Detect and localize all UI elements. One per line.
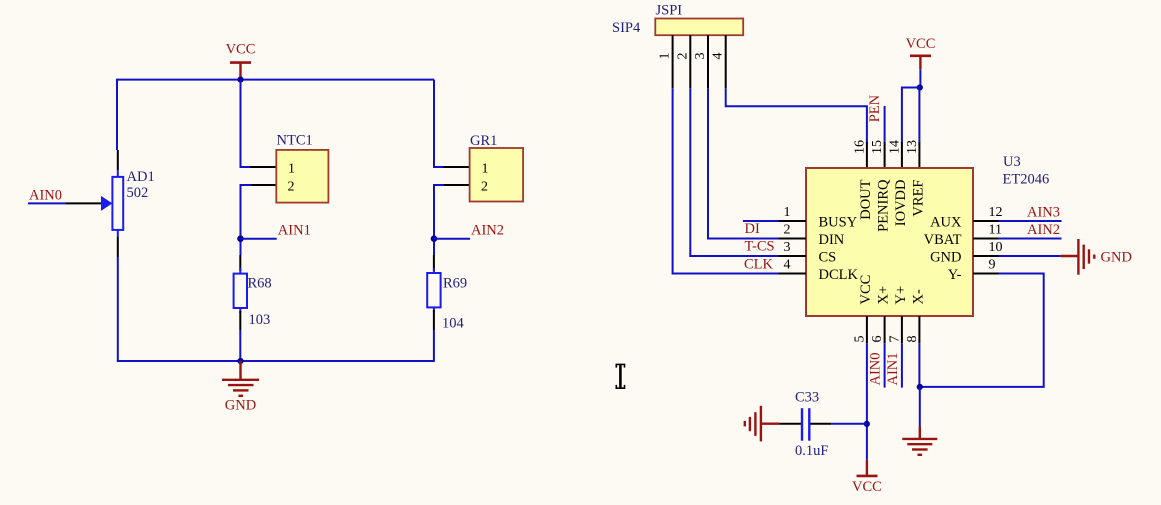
svg-text:11: 11 bbox=[989, 223, 1002, 238]
svg-text:CS: CS bbox=[819, 250, 837, 266]
ground GND (left) bbox=[222, 361, 259, 414]
pin name IOVDD bbox=[893, 180, 909, 227]
wire X- pin8 down bbox=[918, 343, 920, 387]
pin name CS bbox=[819, 250, 837, 266]
wire AIN0 to AD1 wiper bbox=[28, 202, 102, 204]
junction AIN2 bbox=[431, 235, 438, 242]
value 104 bbox=[442, 316, 465, 332]
svg-text:VCC: VCC bbox=[852, 479, 882, 495]
svg-text:AIN2: AIN2 bbox=[471, 223, 504, 239]
net label AIN2 bbox=[471, 223, 504, 239]
pin R68 top bbox=[239, 255, 241, 271]
svg-text:DCLK: DCLK bbox=[819, 267, 859, 283]
wire PEN stub bbox=[884, 106, 886, 143]
svg-text:4: 4 bbox=[711, 53, 726, 60]
svg-text:GND: GND bbox=[1101, 250, 1132, 266]
wire X+ stub pin6 bbox=[884, 343, 886, 387]
svg-text:8: 8 bbox=[905, 336, 920, 343]
pin U3.4 bbox=[779, 258, 806, 274]
pin name VCC bbox=[858, 275, 874, 305]
svg-text:IOVDD: IOVDD bbox=[893, 180, 909, 227]
pin name VBAT bbox=[924, 232, 962, 248]
svg-text:C33: C33 bbox=[795, 390, 819, 406]
wire GR1 pin2 down to AIN2 node bbox=[434, 185, 444, 255]
svg-text:9: 9 bbox=[989, 258, 996, 273]
potentiometer AD1 wiper arrow bbox=[101, 196, 112, 211]
wire AIN2 stub bbox=[434, 238, 470, 240]
pin U3.14 bbox=[887, 140, 902, 168]
wire VCC pin5 down bbox=[866, 343, 868, 460]
pin NTC1.1 bbox=[250, 166, 276, 168]
connector NTC1 bbox=[276, 150, 328, 203]
svg-text:2: 2 bbox=[288, 180, 295, 195]
value 103 bbox=[249, 312, 271, 328]
wire JSPI1 to U3 DCLK bbox=[673, 88, 780, 273]
net label AIN0 (rotated) bbox=[868, 352, 884, 385]
svg-text:PEN: PEN bbox=[867, 94, 883, 122]
svg-text:DOUT: DOUT bbox=[858, 179, 874, 219]
svg-text:AIN0: AIN0 bbox=[29, 188, 62, 204]
pin JSPI.2 bbox=[675, 35, 690, 88]
pin U3.7 bbox=[887, 316, 902, 343]
wire AIN2 pin11 bbox=[999, 238, 1062, 240]
svg-text:Y-: Y- bbox=[948, 267, 962, 283]
svg-text:AUX: AUX bbox=[930, 215, 962, 231]
connector JSPI bbox=[655, 19, 743, 36]
net label PEN bbox=[867, 94, 883, 122]
svg-text:BUSY: BUSY bbox=[819, 215, 858, 231]
svg-text:DIN: DIN bbox=[819, 232, 845, 248]
pin U3.3 bbox=[779, 240, 806, 256]
svg-text:AIN3: AIN3 bbox=[1027, 205, 1060, 221]
svg-text:7: 7 bbox=[887, 336, 902, 343]
pin AD1 top (black) bbox=[117, 150, 119, 170]
pin name X- bbox=[910, 289, 926, 304]
svg-text:AIN0: AIN0 bbox=[868, 352, 884, 385]
svg-text:2: 2 bbox=[784, 223, 791, 238]
wire top rail bbox=[116, 79, 434, 81]
net label AIN3 bbox=[1027, 205, 1060, 221]
power VCC (top left) bbox=[226, 42, 256, 80]
label AD1 bbox=[127, 169, 155, 185]
pin U3.9 bbox=[973, 258, 999, 274]
connector GR1 bbox=[470, 148, 523, 202]
svg-text:X+: X+ bbox=[876, 286, 892, 305]
svg-text:VCC: VCC bbox=[906, 36, 936, 52]
svg-text:JSPI: JSPI bbox=[656, 3, 683, 19]
power VCC (bottom) bbox=[852, 460, 882, 495]
ground GND (right, rotated) bbox=[1061, 239, 1132, 275]
svg-text:CLK: CLK bbox=[744, 256, 774, 272]
wire VCC rail to GR1 pin1 bbox=[434, 80, 444, 167]
junction AIN1 bbox=[237, 235, 244, 242]
svg-text:DI: DI bbox=[745, 221, 760, 237]
svg-text:GR1: GR1 bbox=[470, 133, 497, 149]
svg-text:ET2046: ET2046 bbox=[1003, 172, 1050, 188]
junction VCC node bbox=[237, 77, 243, 83]
svg-text:PENIRQ: PENIRQ bbox=[876, 179, 892, 232]
svg-text:R68: R68 bbox=[248, 276, 272, 292]
pin U3.2 bbox=[779, 223, 806, 239]
svg-text:1: 1 bbox=[658, 53, 673, 60]
svg-text:VREF: VREF bbox=[910, 180, 926, 217]
svg-text:2: 2 bbox=[481, 180, 488, 195]
svg-text:NTC1: NTC1 bbox=[277, 133, 313, 149]
net label CLK bbox=[744, 256, 774, 272]
label U3 bbox=[1003, 154, 1021, 170]
pin R68 bottom bbox=[239, 311, 241, 330]
wire GND pin10 bbox=[999, 255, 1061, 257]
pin U3.6 bbox=[870, 316, 885, 343]
pin U3.12 bbox=[973, 205, 1003, 221]
wire left rail bbox=[116, 80, 119, 361]
svg-text:502: 502 bbox=[127, 185, 149, 201]
svg-text:1: 1 bbox=[482, 162, 489, 177]
label R68 bbox=[248, 276, 272, 292]
value 0.1uF bbox=[795, 443, 828, 459]
pin name Y+ bbox=[893, 286, 909, 305]
wire AIN3 pin12 bbox=[999, 220, 1062, 222]
svg-text:13: 13 bbox=[905, 140, 920, 154]
pin name PENIRQ bbox=[876, 179, 892, 232]
text cursor I-beam bbox=[616, 364, 624, 388]
ic U3 body bbox=[806, 168, 973, 316]
junction VREF node bbox=[917, 84, 923, 90]
wire VCC to junction bbox=[919, 69, 921, 87]
svg-text:3: 3 bbox=[693, 53, 708, 60]
svg-text:10: 10 bbox=[989, 240, 1003, 255]
wire VCC rail to NTC1 pin1 bbox=[241, 80, 252, 167]
pin U3.1 bbox=[779, 205, 806, 221]
wire C33 to node bbox=[831, 423, 867, 425]
pin JSPI.1 bbox=[658, 35, 673, 88]
junction GND node bbox=[237, 358, 243, 364]
svg-text:103: 103 bbox=[249, 312, 271, 328]
wire Y- pin9 to X- node bbox=[920, 274, 1044, 387]
wire bottom rail bbox=[117, 360, 434, 362]
pin U3.11 bbox=[973, 223, 1002, 239]
svg-text:AIN1: AIN1 bbox=[278, 223, 311, 239]
net label AIN1 bbox=[278, 223, 311, 239]
wire JSPI3 to U3 DIN bbox=[708, 88, 780, 238]
svg-text:16: 16 bbox=[852, 140, 867, 154]
junction C33 node bbox=[864, 421, 870, 427]
label ET2046 bbox=[1003, 172, 1050, 188]
svg-text:AIN2: AIN2 bbox=[1027, 222, 1060, 238]
wire R69 to ground rail bbox=[433, 330, 435, 362]
svg-text:6: 6 bbox=[870, 336, 885, 343]
wire junction to IOVDD pin14 bbox=[902, 88, 920, 144]
pin name BUSY bbox=[819, 215, 858, 231]
svg-text:U3: U3 bbox=[1003, 154, 1021, 170]
pin JSPI.3 bbox=[693, 35, 708, 88]
wire JSPI2 to U3 CS bbox=[690, 88, 779, 256]
pin U3.8 bbox=[905, 316, 920, 343]
svg-text:104: 104 bbox=[442, 316, 465, 332]
pin JSPI.4 bbox=[711, 35, 726, 88]
svg-text:4: 4 bbox=[784, 258, 791, 273]
resistor R68 bbox=[234, 268, 247, 313]
net label AIN2 (right) bbox=[1027, 222, 1060, 238]
pin GR1.1 bbox=[443, 166, 470, 168]
pin R69 bottom bbox=[433, 310, 435, 330]
svg-text:AIN1: AIN1 bbox=[885, 352, 901, 385]
pin name DOUT bbox=[858, 179, 874, 219]
svg-text:14: 14 bbox=[887, 140, 902, 154]
pin U3.10 bbox=[973, 240, 1003, 256]
wire X- node to ground bbox=[919, 387, 921, 427]
pin GR1.2 bbox=[443, 184, 470, 186]
capacitor C33 bbox=[802, 408, 809, 441]
svg-text:R69: R69 bbox=[443, 276, 467, 292]
label C33 bbox=[795, 390, 819, 406]
pin R69 top bbox=[433, 255, 435, 271]
pin U3.13 bbox=[905, 140, 920, 168]
svg-text:VCC: VCC bbox=[858, 275, 874, 305]
wire BUSY stub bbox=[743, 220, 780, 222]
ground (below X- node) bbox=[902, 427, 937, 455]
pin name GND bbox=[930, 250, 961, 266]
svg-text:12: 12 bbox=[989, 205, 1003, 220]
svg-text:2: 2 bbox=[675, 53, 690, 60]
ground (left of C33, rotated) bbox=[745, 406, 779, 442]
svg-text:1: 1 bbox=[784, 205, 791, 220]
net label AIN0 bbox=[29, 188, 62, 204]
svg-text:T-CS: T-CS bbox=[745, 239, 775, 255]
pin name Y- bbox=[948, 267, 962, 283]
pin name DCLK bbox=[819, 267, 859, 283]
svg-text:SIP4: SIP4 bbox=[612, 20, 641, 36]
potentiometer AD1 body bbox=[112, 170, 123, 237]
wire AIN1 stub bbox=[241, 238, 277, 240]
svg-text:GND: GND bbox=[225, 398, 256, 414]
pin AD1 bottom (black) bbox=[117, 237, 119, 257]
pin C33 left bbox=[779, 423, 801, 425]
label R69 bbox=[443, 276, 467, 292]
value 502 bbox=[127, 185, 149, 201]
svg-text:VBAT: VBAT bbox=[924, 232, 962, 248]
pin U3.16 bbox=[852, 140, 867, 168]
svg-text:VCC: VCC bbox=[226, 42, 256, 58]
label SIP4 bbox=[612, 20, 641, 36]
svg-text:1: 1 bbox=[288, 162, 295, 177]
svg-text:3: 3 bbox=[784, 240, 791, 255]
net label AIN1 (rotated) bbox=[885, 352, 901, 385]
pin name AUX bbox=[930, 215, 962, 231]
svg-text:0.1uF: 0.1uF bbox=[795, 443, 828, 459]
pin U3.5 bbox=[852, 316, 867, 343]
svg-text:5: 5 bbox=[852, 336, 867, 343]
svg-text:15: 15 bbox=[870, 140, 885, 154]
svg-text:GND: GND bbox=[930, 250, 961, 266]
wire Y+ stub pin7 bbox=[901, 343, 903, 387]
junction X- node bbox=[917, 384, 923, 390]
svg-text:X-: X- bbox=[910, 289, 926, 304]
pin NTC1.2 bbox=[250, 184, 276, 186]
wire junction to VREF pin13 bbox=[918, 88, 920, 144]
label GR1 bbox=[470, 133, 497, 149]
resistor R69 bbox=[427, 268, 440, 312]
svg-text:AD1: AD1 bbox=[127, 169, 155, 185]
net label DI bbox=[745, 221, 760, 237]
svg-text:Y+: Y+ bbox=[893, 286, 909, 305]
wire R68 to ground rail bbox=[239, 330, 241, 361]
label JSPI bbox=[656, 3, 683, 19]
pin name VREF bbox=[910, 180, 926, 217]
pin U3.15 bbox=[870, 140, 885, 168]
power VCC (top right) bbox=[906, 36, 936, 69]
pin name X+ bbox=[876, 286, 892, 305]
wire JSPI4 to U3 DOUT bbox=[726, 88, 867, 143]
pin C33 right bbox=[810, 423, 831, 425]
wire NTC1 pin2 down to AIN1 node bbox=[241, 185, 252, 255]
net label T-CS bbox=[745, 239, 775, 255]
pin name DIN bbox=[819, 232, 845, 248]
label NTC1 bbox=[277, 133, 313, 149]
